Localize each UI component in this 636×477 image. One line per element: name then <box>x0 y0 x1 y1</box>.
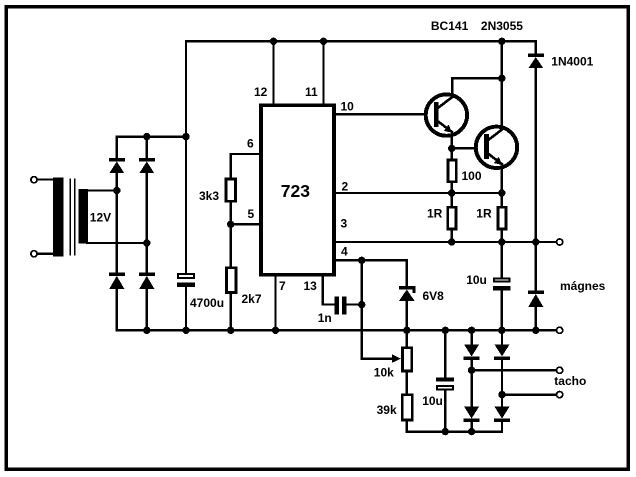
wire: 100 bottom lead <box>451 183 453 193</box>
wire: 1R right top lead (2N3055 emitter column) <box>501 166 503 206</box>
wire: 3k3 to pin5 node <box>229 203 231 225</box>
terminal: primary bottom <box>31 251 37 257</box>
node: pin3 rail 1R right <box>498 238 505 245</box>
node: secondary bottom junction <box>143 239 150 246</box>
svg-text:10: 10 <box>341 100 355 114</box>
node: pin2 left <box>448 189 455 196</box>
wire: 1N4001 bottom lead <box>535 68 537 242</box>
node: ground rail diode string left <box>468 327 475 334</box>
svg-text:10u: 10u <box>466 273 487 287</box>
node: bottom rail 10u <box>442 428 449 435</box>
wire: pin 7 lead <box>274 275 276 331</box>
wire: bridge top wire <box>117 135 186 137</box>
svg-text:12: 12 <box>254 85 268 99</box>
svg-text:723: 723 <box>281 181 310 201</box>
wire: pin4 node down to pot wiper <box>362 260 393 358</box>
bridge diode D2 (top-right) <box>139 158 155 173</box>
svg-text:6: 6 <box>247 137 254 151</box>
diode string left lower <box>464 407 480 423</box>
resistor 1R left <box>448 207 456 229</box>
wire: pot to 39k <box>406 372 408 393</box>
svg-text:3: 3 <box>341 217 348 231</box>
wire: bridge diode D2 top lead <box>146 137 148 159</box>
wire: 2k7 bottom lead <box>229 294 231 331</box>
wire: magnes diode top lead <box>535 242 537 291</box>
wire: bridge column 2 bottom <box>146 289 148 331</box>
wire: tacho lower lead <box>502 393 556 395</box>
capacitor 4700u <box>177 274 195 287</box>
wire: bridge column 1 bottom <box>116 289 118 331</box>
wire: diode string left middle <box>470 360 472 407</box>
svg-text:100: 100 <box>462 169 482 183</box>
resistor 39k <box>402 395 412 420</box>
wire: primary top lead <box>36 178 55 180</box>
wire: 10u lower bottom lead <box>444 390 446 431</box>
zener diode 6V8 <box>399 286 416 301</box>
wire: 4700u bottom lead <box>185 287 187 331</box>
diode magnes flyback <box>528 290 544 306</box>
node: ground rail 10u upper <box>498 327 505 334</box>
svg-text:39k: 39k <box>377 403 397 417</box>
svg-text:2k7: 2k7 <box>242 292 262 306</box>
wire: 1R right bottom lead <box>501 230 503 242</box>
wire: bridge column 1 middle <box>116 173 118 273</box>
svg-text:12V: 12V <box>90 210 111 224</box>
terminal: output minus <box>557 327 563 333</box>
svg-text:4: 4 <box>341 245 348 259</box>
wire: bridge column 2 middle <box>146 173 148 273</box>
resistor 3k3 <box>226 179 236 201</box>
svg-text:7: 7 <box>279 279 286 293</box>
node: tacho lower tap <box>498 391 505 398</box>
node: pin5 divider <box>227 221 234 228</box>
diode 1N4001 <box>528 54 544 69</box>
wire: 100 top lead <box>451 148 453 158</box>
wire: secondary bottom tap <box>87 242 147 244</box>
transformer primary winding bar <box>53 177 64 256</box>
wire: pin 10 lead to BC141 base <box>336 113 435 115</box>
node: ground rail 4700u <box>182 327 189 334</box>
wire: 1N4001 top lead from rail corner <box>535 41 537 54</box>
svg-text:1R: 1R <box>476 207 492 221</box>
bridge diode D1 (top-left) <box>109 158 125 173</box>
svg-text:2N3055: 2N3055 <box>481 19 523 33</box>
wire: pin 12 lead <box>272 41 274 104</box>
svg-text:1n: 1n <box>318 311 332 325</box>
node: tacho upper tap <box>468 367 475 374</box>
wire: diode string left bottom lead <box>470 422 472 432</box>
wire: 10u upper top lead <box>501 242 503 278</box>
bridge diode D4 (bottom-right) <box>139 272 155 288</box>
terminal: output plus <box>557 239 563 245</box>
svg-text:10u: 10u <box>422 394 443 408</box>
svg-text:tacho: tacho <box>554 374 586 388</box>
terminal: tacho upper <box>557 367 563 373</box>
svg-text:10k: 10k <box>374 366 394 380</box>
node: 1n junction <box>358 301 365 308</box>
wire: node to 2k7 <box>229 224 231 266</box>
wire: pin 3 output rail <box>336 241 556 243</box>
node: bridge top wire col2 <box>143 133 150 140</box>
transistor Q2 2N3055 <box>476 127 517 168</box>
wire: bridge diode D1 top lead <box>116 137 118 159</box>
pot wiper arrow <box>392 354 401 363</box>
node: pin2 right <box>498 189 505 196</box>
wire: 2N3055 collector column <box>501 41 503 128</box>
wire: BC141 emitter to 2N3055 base <box>452 147 486 149</box>
diode string right lower <box>494 407 510 423</box>
wire: pin 5 lead <box>231 223 260 225</box>
diode string right upper <box>494 345 510 361</box>
node: BC141 emitter node <box>448 145 455 152</box>
wire: top positive rail <box>186 40 536 42</box>
wire: diode string right bottom lead <box>501 422 503 432</box>
node: top rail pin12 <box>270 38 277 45</box>
svg-text:2: 2 <box>342 179 349 193</box>
capacitor 1n <box>335 297 347 315</box>
node: ground rail pin7 <box>272 327 279 334</box>
diode string left upper <box>464 345 480 361</box>
potentiometer 10k <box>402 348 411 371</box>
node: secondary top junction <box>113 187 120 194</box>
wire: zener top lead <box>406 260 408 286</box>
resistor 2k7 <box>227 268 237 293</box>
node: BC141 collector joins column <box>498 75 505 82</box>
svg-text:11: 11 <box>305 85 318 99</box>
wire: 10u lower top lead <box>444 330 446 377</box>
node: ground rail 2k7 <box>227 327 234 334</box>
wire: BC141 collector up and over <box>452 78 502 96</box>
wire: primary bottom lead <box>36 253 55 255</box>
wire: 1n right lead <box>346 303 362 305</box>
wire: pin 13 lead to 1n <box>323 275 336 305</box>
node: pin4 wire <box>358 257 365 264</box>
transformer secondary winding bar <box>79 189 88 244</box>
op-amp U1: 723 regulator box <box>261 105 334 275</box>
capacitor 10u lower <box>436 377 454 389</box>
node: top rail collector column <box>498 38 505 45</box>
wire: ground rail (bridge minus) <box>117 329 557 331</box>
svg-text:1N4001: 1N4001 <box>551 55 593 69</box>
wire: 10u upper bottom lead <box>501 291 503 331</box>
node: pin3 rail 1R left <box>448 238 455 245</box>
wire: left vertical drop from top rail to 4700u <box>185 41 187 273</box>
wire: secondary top tap <box>87 189 117 191</box>
wire: 1R left bottom lead <box>451 230 453 242</box>
wire: bottom tacho rail <box>407 430 502 432</box>
svg-text:6V8: 6V8 <box>423 289 445 303</box>
svg-text:1R: 1R <box>427 207 443 221</box>
svg-text:mágnes: mágnes <box>560 279 606 293</box>
svg-text:BC141: BC141 <box>431 19 469 33</box>
wire: 39k bottom lead <box>406 421 408 431</box>
svg-text:13: 13 <box>304 279 318 293</box>
bridge diode D3 (bottom-left) <box>109 272 125 288</box>
svg-text:3k3: 3k3 <box>199 189 219 203</box>
node: ground rail col2 <box>143 327 150 334</box>
wire: tacho upper lead <box>472 369 557 371</box>
capacitor 10u upper <box>493 278 511 290</box>
resistor 100 <box>448 160 456 182</box>
wire: 1R left top lead <box>451 193 453 206</box>
wire: pin 2 lead <box>336 192 502 194</box>
transformer core line 2 <box>74 179 76 256</box>
svg-text:4700u: 4700u <box>190 296 224 310</box>
wire: diode string right top lead <box>501 330 503 344</box>
wire: BC141 emitter lead <box>451 135 453 148</box>
node: ground rail zener <box>403 327 410 334</box>
node: bridge top wire left drop <box>182 133 189 140</box>
node: pin3 rail magnes column <box>532 238 539 245</box>
svg-text:5: 5 <box>248 207 255 221</box>
wire: pin 11 lead <box>322 41 324 104</box>
terminal: primary top <box>31 177 37 183</box>
wire: magnes diode bottom lead <box>535 307 537 331</box>
wire: pin 6 lead <box>231 154 260 178</box>
node: ground rail magnes <box>532 327 539 334</box>
terminal: tacho lower <box>557 392 563 398</box>
node: ground rail 10u lower <box>442 327 449 334</box>
wire: diode string right middle <box>501 360 503 407</box>
transformer core line 1 <box>69 179 71 256</box>
resistor 1R right <box>498 207 506 229</box>
node: top rail pin11 <box>320 38 327 45</box>
wire: pin 4 lead <box>336 259 407 261</box>
wire: pot top lead <box>406 330 408 346</box>
wire: zener bottom lead <box>406 301 408 330</box>
wire: diode string left top lead <box>470 330 472 344</box>
node: bottom rail diode string left <box>468 428 475 435</box>
transistor Q1 BC141 <box>426 94 467 135</box>
